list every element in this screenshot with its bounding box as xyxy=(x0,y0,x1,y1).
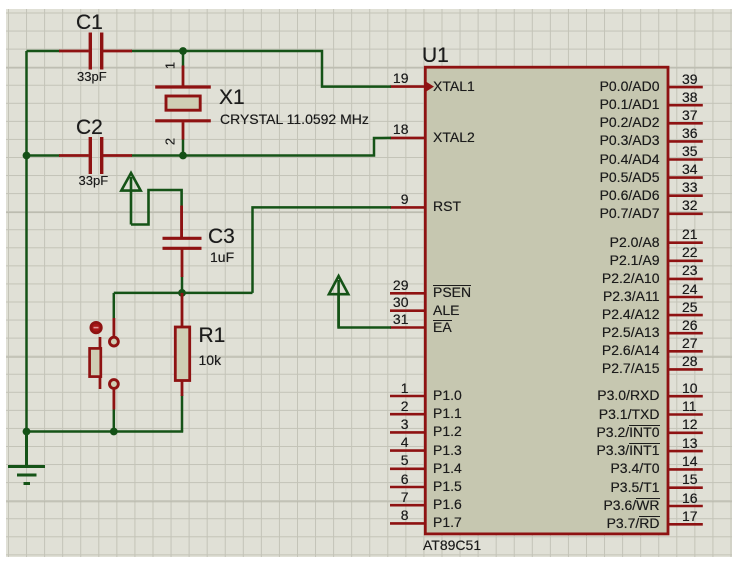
capacitor C2 xyxy=(59,137,132,174)
pin 37 (P0.2/AD2) stub xyxy=(668,122,703,125)
pin 13 (P3.3/INT1) stub xyxy=(668,450,703,453)
pin name P3.0/RXD xyxy=(597,387,659,403)
pin number 2 (X1) xyxy=(163,135,178,149)
pin number 7 xyxy=(401,489,409,505)
pin number 8 xyxy=(401,507,409,523)
pin 11 (P3.1/TXD) stub xyxy=(668,413,703,416)
push button switch xyxy=(90,318,119,410)
designator R1 xyxy=(199,324,226,347)
pin name P0.5/AD5 xyxy=(600,169,660,185)
pin number 5 xyxy=(401,452,409,468)
power symbol VCC arrow 2 xyxy=(329,276,391,328)
pin number 24 xyxy=(682,281,698,297)
pin name P1.1 xyxy=(433,405,462,421)
pin name P2.5/A13 xyxy=(602,324,660,340)
pin name P3.4/T0 xyxy=(610,460,659,476)
node C junction C2/X1 bottom xyxy=(179,152,187,160)
wire C2 right to crystal bottom node xyxy=(131,154,184,157)
pin 27 (P2.6/A14) stub xyxy=(668,350,703,353)
pin name P0.2/AD2 xyxy=(600,114,660,130)
pin name P1.2 xyxy=(433,423,462,439)
capacitor C3 xyxy=(163,206,202,277)
pin name P1.5 xyxy=(433,478,462,494)
designator U1 xyxy=(422,44,449,67)
wire X1 pin1 green stub xyxy=(182,51,185,67)
pin number 28 xyxy=(682,353,698,369)
wire bottom ground net xyxy=(27,430,184,433)
wire C1 left to rail xyxy=(27,50,61,53)
pin number 26 xyxy=(682,317,698,333)
pin number 14 xyxy=(682,453,698,469)
part value AT89C51 xyxy=(423,537,481,553)
pin 3 (P1.2) stub xyxy=(390,431,425,434)
pin name P2.1/A9 xyxy=(610,252,660,268)
pin 6 (P1.5) stub xyxy=(390,486,425,489)
pin number 10 xyxy=(682,380,698,396)
wire left vertical rail xyxy=(25,51,28,432)
pin name P2.2/A10 xyxy=(602,270,660,286)
pin number 19 xyxy=(393,70,409,86)
node D junction C3/R1/reset xyxy=(178,289,186,297)
wire button bottom green segment xyxy=(113,409,116,432)
pin name P1.3 xyxy=(433,442,462,458)
designator C2 xyxy=(76,116,103,139)
wire rail to C2 left xyxy=(27,154,61,157)
pin name P3.7/RD xyxy=(607,515,660,531)
pin name P0.7/AD7 xyxy=(600,205,660,221)
pin name P3.1/TXD xyxy=(599,406,660,422)
pin name P3.2/INT0 xyxy=(596,424,659,440)
pin number 21 xyxy=(682,226,698,242)
pin 31 (EA) stub xyxy=(390,326,425,329)
pin number 25 xyxy=(682,299,698,315)
pin number 2 xyxy=(401,398,409,414)
pin 15 (P3.5/T1) stub xyxy=(668,486,703,489)
pin number 9 xyxy=(401,191,409,207)
pin number 1 (X1) xyxy=(163,59,178,73)
value CRYSTAL 11.0592 MHz xyxy=(220,111,369,127)
pin number 29 xyxy=(393,277,409,293)
pin number 18 xyxy=(393,121,409,137)
pin 21 (P2.0/A8) stub xyxy=(668,241,703,244)
pin 23 (P2.2/A10) stub xyxy=(668,278,703,281)
pin 36 (P0.3/AD3) stub xyxy=(668,140,703,143)
XTAL1 clock input triangle xyxy=(426,82,434,92)
pin number 6 xyxy=(401,471,409,487)
pin 18 (XTAL2) stub xyxy=(390,137,425,140)
pin name P2.7/A15 xyxy=(602,360,660,376)
pin 2 (P1.1) stub xyxy=(390,413,425,416)
pin 7 (P1.6) stub xyxy=(390,504,425,507)
pin name P0.3/AD3 xyxy=(600,132,660,148)
pin 17 (P3.7/RD) stub xyxy=(668,523,703,526)
pin name P1.4 xyxy=(433,460,462,476)
pin name P1.6 xyxy=(433,496,462,512)
node A junction C1/X1 top xyxy=(179,47,187,55)
pin number 35 xyxy=(682,143,698,159)
value 33pF (C2) xyxy=(79,173,109,188)
pin 9 (RST) stub xyxy=(390,206,425,209)
value 1uF xyxy=(210,249,234,265)
wire C1 right to crystal node xyxy=(131,50,184,53)
pin 30 (ALE) stub xyxy=(390,309,425,312)
pin number 27 xyxy=(682,335,698,351)
pin name P3.3/INT1 xyxy=(596,442,659,458)
power symbol VCC arrow 1 xyxy=(121,173,181,225)
pin 24 (P2.3/A11) stub xyxy=(668,296,703,299)
pin number 16 xyxy=(682,490,698,506)
pin 22 (P2.1/A9) stub xyxy=(668,259,703,262)
pin 10 (P3.0/RXD) stub xyxy=(668,395,703,398)
value 10k xyxy=(199,352,222,368)
pin 8 (P1.7) stub xyxy=(390,522,425,525)
pin number 31 xyxy=(393,311,409,327)
pin number 33 xyxy=(682,179,698,195)
pin name XTAL1 xyxy=(433,78,475,94)
pin number 17 xyxy=(682,508,698,524)
wire button top lead upper xyxy=(113,293,116,319)
pin number 36 xyxy=(682,125,698,141)
pin number 4 xyxy=(401,434,409,450)
pin name EA xyxy=(433,319,452,335)
pin name P0.4/AD4 xyxy=(600,151,660,167)
IC U1 AT89C51 body xyxy=(425,67,668,534)
pin 35 (P0.4/AD4) stub xyxy=(668,158,703,161)
designator X1 xyxy=(219,86,245,109)
pin number 13 xyxy=(682,435,698,451)
ground symbol xyxy=(8,432,45,484)
pin 16 (P3.6/WR) stub xyxy=(668,505,703,508)
pin number 22 xyxy=(682,244,698,260)
pin 25 (P2.4/A12) stub xyxy=(668,314,703,317)
pin number 30 xyxy=(393,294,409,310)
designator C3 xyxy=(208,225,235,248)
pin number 11 xyxy=(682,398,697,414)
pin 33 (P0.6/AD6) stub xyxy=(668,194,703,197)
pin name P1.0 xyxy=(433,387,462,403)
pin number 1 xyxy=(401,380,409,396)
pin 12 (P3.2/INT0) stub xyxy=(668,431,703,434)
wire node A to XTAL1 pin xyxy=(183,51,391,87)
pin 26 (P2.5/A13) stub xyxy=(668,332,703,335)
pin name PSEN xyxy=(433,284,471,300)
wire R1 bottom green segment xyxy=(181,395,184,432)
pin name P0.0/AD0 xyxy=(600,78,660,94)
pin number 3 xyxy=(401,416,409,432)
pin number 34 xyxy=(682,161,698,177)
pin number 39 xyxy=(682,71,698,87)
pin name P2.6/A14 xyxy=(602,342,660,358)
pin 38 (P0.1/AD1) stub xyxy=(668,104,703,107)
pin number 15 xyxy=(682,471,698,487)
pin number 32 xyxy=(682,197,698,213)
pin number 23 xyxy=(682,262,698,278)
pin number 37 xyxy=(682,107,698,123)
pin 34 (P0.5/AD5) stub xyxy=(668,176,703,179)
pin name P2.3/A11 xyxy=(603,288,660,304)
pin 28 (P2.7/A15) stub xyxy=(668,368,703,371)
wire node C to XTAL2 pin xyxy=(183,138,391,156)
node F junction button/ground net xyxy=(110,428,118,436)
pin 19 (XTAL1) stub xyxy=(390,85,425,88)
pin name P2.0/A8 xyxy=(610,234,660,250)
pin 4 (P1.3) stub xyxy=(390,449,425,452)
wire C3 bottom green segment xyxy=(181,277,184,293)
capacitor C1 xyxy=(59,33,132,70)
designator C1 xyxy=(76,11,103,34)
pin name ALE xyxy=(433,302,459,318)
pin name P0.1/AD1 xyxy=(600,96,660,112)
node E junction rail/ground net xyxy=(23,428,31,436)
wire RST to chip xyxy=(253,207,392,293)
pin 32 (P0.7/AD7) stub xyxy=(668,213,703,216)
pin 5 (P1.4) stub xyxy=(390,467,425,470)
pin 1 (P1.0) stub xyxy=(390,395,425,398)
pin name P3.5/T1 xyxy=(610,479,659,495)
pin 29 (PSEN) stub xyxy=(390,292,425,295)
pin name P1.7 xyxy=(433,514,462,530)
pin 14 (P3.4/T0) stub xyxy=(668,468,703,471)
pin name P0.6/AD6 xyxy=(600,187,660,203)
pin number 12 xyxy=(682,416,698,432)
pin name P3.6/WR xyxy=(603,497,659,513)
wire reset net horizontal xyxy=(114,292,253,295)
wire VCC1 red lead to C3 xyxy=(180,206,183,238)
pin 39 (P0.0/AD0) stub xyxy=(668,86,703,89)
pin name RST xyxy=(433,198,461,214)
node B junction rail/C2 xyxy=(23,152,31,160)
pin name P2.4/A12 xyxy=(602,306,660,322)
wire X1 pin2 green stub xyxy=(182,139,185,156)
crystal X1 xyxy=(155,66,211,140)
pin name XTAL2 xyxy=(433,129,475,145)
resistor R1 xyxy=(175,293,189,396)
value 33pF (C1) xyxy=(77,69,107,84)
pin number 38 xyxy=(682,89,698,105)
